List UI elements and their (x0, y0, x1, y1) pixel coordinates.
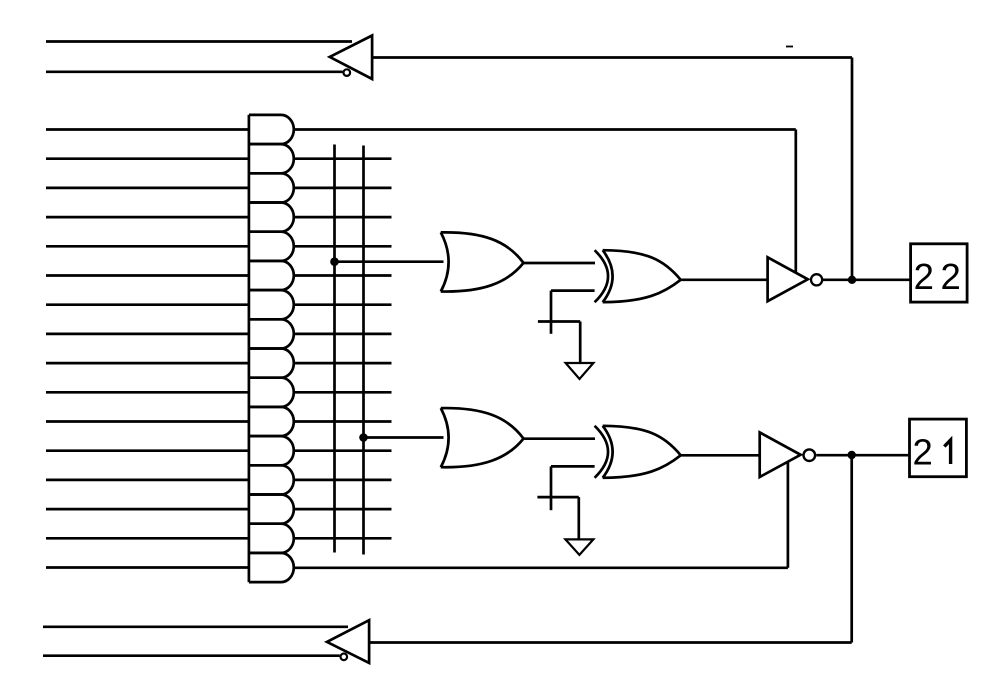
wire input line 5 (46, 245, 249, 248)
wire AND cell 12 output stub (294, 449, 391, 452)
wire input line 9 (46, 362, 249, 365)
wire input line 13 (46, 479, 249, 482)
wire drop to ground (lower) (577, 497, 580, 539)
wire product-term vertical line 2 (362, 146, 365, 555)
AND cell 12 (249, 436, 294, 465)
wire AND cell 4 output stub (294, 216, 391, 219)
wire OR G1 output to XOR G2 (524, 262, 596, 265)
junction dot on vertical line 1 (330, 257, 339, 266)
wire vertical jog (550, 291, 553, 334)
label 22 (914, 256, 961, 297)
wire bottom feedback line A (43, 625, 348, 628)
AND cell 6 (249, 261, 294, 290)
wire AND cell 13 output stub (294, 479, 391, 482)
wire input line 7 (46, 303, 249, 306)
wire feedback vertical into inverter U3 edge (794, 130, 797, 273)
junction node 22 (848, 276, 856, 284)
wire from junction to OR gate G3 input (364, 436, 444, 439)
wire input line 2 (46, 157, 249, 160)
wire top feedback line A (46, 40, 352, 43)
wire input line 14 (46, 508, 249, 511)
AND cell 2 (249, 144, 294, 173)
wire XOR G2 lower input stub (551, 289, 595, 292)
wire feedback vertical into inverter U4 edge (787, 462, 790, 568)
wire XOR G4 output to inverter U4 (681, 454, 760, 457)
AND cell 4 (249, 203, 294, 232)
wire input line 4 (46, 216, 249, 219)
or-gate G1 (441, 232, 524, 291)
AND cell 16 (249, 553, 294, 582)
wire AND cell 9 output stub (294, 362, 391, 365)
AND cell 7 (249, 290, 294, 319)
bubble on inverter U4 (804, 449, 816, 461)
wire XOR G4 lower input stub (551, 465, 595, 468)
wire bottom feedback line B (43, 654, 340, 657)
inverter U4 (760, 432, 801, 477)
box terminal 21 (910, 419, 967, 477)
wire from junction to OR gate G1 input (335, 260, 444, 263)
wire inverter U3 output to box 22 (822, 278, 910, 281)
wire AND cell 15 output stub (294, 537, 391, 540)
wire OR G3 output to XOR G4 (524, 437, 596, 440)
xor-gate G2 (595, 250, 681, 302)
wire top feedback line B (46, 70, 343, 73)
wire input line 16 (46, 566, 249, 569)
wire product-term vertical line 1 (333, 145, 336, 553)
AND-array column back edge (248, 115, 251, 582)
wire crossbar (lower) (537, 496, 578, 499)
wire input line 10 (46, 391, 249, 394)
wire input line 12 (46, 449, 249, 452)
wire input line 8 (46, 333, 249, 336)
wire right vertical from node 21 down (850, 455, 853, 643)
AND cell 11 (249, 407, 294, 436)
wire right vertical from top line down to node 22 (851, 58, 854, 280)
wire from node 22 to inverter U5 input (372, 56, 852, 59)
wire input line 3 (46, 187, 249, 190)
wire bottom line to inverter U6 input (369, 641, 852, 644)
wire AND cell 6 output stub (294, 274, 391, 277)
wire XOR G2 output to inverter U3 (681, 278, 768, 281)
wire AND cell 7 output stub (294, 303, 391, 306)
bubble on inverter U6 (341, 654, 348, 661)
wire inverter U4 output to box 21 (816, 454, 909, 457)
wire AND cell 5 output stub (294, 245, 391, 248)
bubble on inverter U5 (344, 69, 351, 76)
stray dash mark top right (786, 46, 793, 48)
wire AND cell 2 output stub (294, 157, 391, 160)
wire input line 11 (46, 420, 249, 423)
wire AND cell 14 output stub (294, 508, 391, 511)
AND cell 10 (249, 378, 294, 407)
wire AND cell 11 output stub (294, 420, 391, 423)
svg-text:2: 2 (914, 256, 934, 297)
svg-text:2: 2 (940, 256, 960, 297)
AND cell 13 (249, 465, 294, 494)
wire drop to ground (579, 322, 582, 364)
xor-gate G4 (595, 426, 681, 478)
wire crossbar (538, 320, 580, 323)
wire input line 6 (46, 274, 249, 277)
box terminal 22 (911, 244, 968, 302)
AND cell 8 (249, 319, 294, 348)
AND cell 5 (249, 232, 294, 261)
wire input line 1 (46, 128, 249, 131)
junction node 21 (848, 451, 856, 459)
svg-text:2: 2 (912, 432, 932, 473)
wire AND cell 1 output feedback to inverter U3 (294, 128, 795, 131)
wire AND cell 3 output stub (294, 187, 391, 190)
AND cell 9 (249, 349, 294, 378)
inverter U6 (left-pointing, bottom) (327, 620, 369, 663)
junction dot on vertical line 2 (359, 433, 368, 442)
wire AND cell 8 output stub (294, 333, 391, 336)
label 21 (912, 432, 950, 473)
ground symbol (lower) (565, 539, 593, 555)
inverter U5 (left-pointing, top) (330, 36, 372, 80)
AND cell 14 (249, 495, 294, 524)
wire AND cell 10 output stub (294, 391, 391, 394)
wire AND cell 16 output feedback to inverter U4 (294, 566, 788, 569)
bubble on inverter U3 (811, 274, 822, 285)
or-gate G3 (441, 408, 524, 467)
wire input line 15 (46, 537, 249, 540)
inverter U3 (768, 257, 808, 301)
AND cell 15 (249, 524, 294, 553)
AND cell 1 (249, 115, 294, 144)
ground symbol (upper) (566, 363, 594, 379)
AND cell 3 (249, 173, 294, 202)
wire vertical jog (lower) (550, 466, 553, 510)
